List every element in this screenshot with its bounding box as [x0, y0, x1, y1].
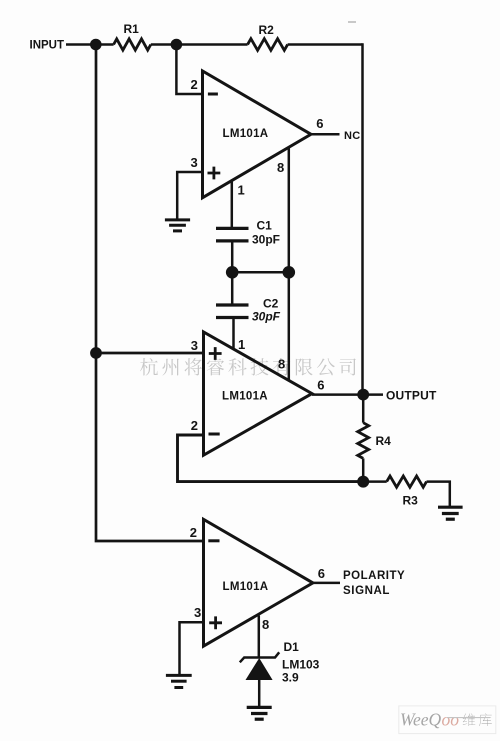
- svg-text:3.9: 3.9: [282, 671, 299, 685]
- U1 minus sign: [208, 93, 218, 96]
- watermark 杭州将睿科技有限公司: [140, 358, 356, 376]
- wire U3 pin3 to ground: [180, 622, 204, 674]
- U3 plus sign: [209, 616, 222, 629]
- svg-text:3: 3: [194, 605, 201, 620]
- resistor R1: [114, 39, 151, 50]
- svg-text:oo: oo: [442, 710, 460, 730]
- op-amp U2 LM101A: [204, 332, 313, 455]
- watermark WeeQoo box: [399, 706, 496, 734]
- svg-text:LM101A: LM101A: [223, 581, 269, 593]
- wire node to node: [232, 271, 289, 274]
- wire to op2 pin3: [96, 352, 204, 355]
- wire output to R4: [362, 395, 365, 423]
- svg-text:LM101A: LM101A: [222, 391, 268, 403]
- artifact dash top right: [348, 21, 356, 23]
- wire R3 to ground: [427, 482, 450, 506]
- node pin8 rail: [283, 266, 296, 279]
- node C1-C2: [226, 266, 239, 279]
- svg-text:30pF: 30pF: [252, 233, 280, 247]
- U3 minus sign: [208, 539, 219, 542]
- ground G3: [166, 675, 192, 687]
- svg-text:C1: C1: [257, 219, 273, 233]
- svg-text:6: 6: [316, 116, 323, 131]
- wire U1 pin1 down: [231, 181, 234, 229]
- svg-text:WeeQ: WeeQ: [400, 710, 442, 730]
- svg-text:3: 3: [191, 155, 198, 170]
- svg-text:8: 8: [262, 617, 269, 632]
- wire input stub: [66, 43, 114, 46]
- svg-text:C2: C2: [263, 297, 279, 311]
- svg-text:1: 1: [238, 337, 245, 352]
- wire left rail: [96, 45, 204, 542]
- diode D1 zener: [240, 652, 279, 662]
- wire node to C2: [231, 272, 234, 305]
- wire U2 pin6 to OUTPUT: [312, 393, 383, 396]
- svg-text:D1: D1: [284, 640, 300, 654]
- wire R2 to right rail: [288, 43, 363, 46]
- svg-text:3: 3: [191, 338, 198, 353]
- wire U1 pin8 down: [288, 148, 291, 273]
- wire U3 pin8 to D1: [258, 616, 261, 659]
- op-amp U3 LM101A: [204, 519, 313, 646]
- resistor R2: [248, 39, 288, 51]
- ground G1: [165, 220, 190, 231]
- resistor R3: [363, 480, 387, 483]
- svg-text:2: 2: [191, 77, 198, 92]
- wire R4 to node: [362, 458, 365, 481]
- op-amp U1 LM101A: [203, 71, 312, 198]
- node R4-R3: [357, 476, 369, 488]
- svg-text:LM103: LM103: [282, 658, 320, 672]
- svg-text:30pF: 30pF: [252, 310, 281, 324]
- wire right rail vertical: [361, 43, 364, 394]
- U1 plus sign: [208, 167, 221, 180]
- wire U3 pin6: [313, 582, 340, 585]
- wire C1 to node: [231, 241, 234, 272]
- wire U1 pin3 to ground: [177, 172, 202, 219]
- U2 minus sign: [209, 433, 220, 436]
- svg-text:LM101A: LM101A: [223, 128, 269, 140]
- node output junction: [357, 389, 369, 401]
- svg-text:R2: R2: [259, 23, 275, 37]
- wire D1 to ground: [258, 680, 261, 707]
- wire op1 pin2: [176, 45, 202, 95]
- node input junction: [90, 39, 102, 51]
- wire U2 pin2 feedback: [178, 435, 364, 482]
- node R1-R2 junction: [171, 39, 183, 51]
- svg-text:NC: NC: [344, 130, 361, 142]
- svg-text:8: 8: [278, 357, 285, 372]
- wire C2 to U2 pin1: [232, 318, 235, 350]
- svg-text:SIGNAL: SIGNAL: [343, 585, 390, 597]
- svg-text:2: 2: [191, 418, 198, 433]
- svg-text:INPUT: INPUT: [30, 40, 65, 52]
- capacitor C2: [216, 303, 249, 306]
- svg-text:R4: R4: [376, 434, 392, 448]
- svg-text:POLARITY: POLARITY: [343, 570, 405, 582]
- wire U1 pin6 to NC: [311, 133, 340, 136]
- svg-text:1: 1: [238, 183, 245, 198]
- wire R1 to R2: [151, 43, 248, 46]
- node left rail to op2: [90, 347, 102, 359]
- svg-text:6: 6: [317, 378, 324, 393]
- svg-text:2: 2: [190, 525, 197, 540]
- svg-text:6: 6: [318, 566, 325, 581]
- svg-text:R3: R3: [403, 494, 419, 508]
- svg-text:OUTPUT: OUTPUT: [386, 389, 437, 403]
- ground G2: [438, 507, 463, 519]
- ground G4: [247, 707, 272, 719]
- resistor R4: [358, 423, 369, 459]
- svg-text:R1: R1: [124, 22, 140, 36]
- capacitor C1: [216, 227, 249, 230]
- wire node to U2 pin8: [288, 272, 291, 381]
- svg-text:8: 8: [277, 160, 284, 175]
- watermark strike line: [447, 717, 490, 719]
- U2 plus sign: [209, 347, 222, 360]
